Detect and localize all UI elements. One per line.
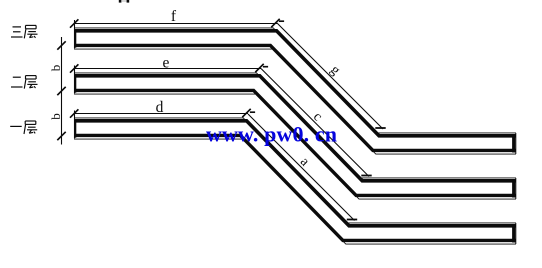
- sloped dimension line g: [277, 23, 383, 129]
- sloped dimension line c: [261, 69, 369, 177]
- cropped text fragment at top edge: [119, 0, 122, 3]
- flight 3 left end cap: [74, 119, 76, 137]
- sloped dimension line a: [248, 114, 355, 221]
- flight 3 top rebar (thick): [74, 121, 516, 226]
- tick right end of f: [271, 19, 279, 27]
- flight 2 bottom rebar (thick): [74, 90, 516, 195]
- flight 2 top rebar (thick): [74, 76, 516, 181]
- extension line flight 1: [74, 20, 76, 48]
- dimension line f: [74, 23, 278, 25]
- extension line flight 3: [74, 111, 76, 139]
- extension line flight 2: [74, 66, 76, 94]
- dimension line d: [74, 113, 249, 115]
- svg-text:e: e: [163, 54, 170, 71]
- flight 1 top rebar (thick): [74, 31, 516, 136]
- tick lower end of c: [361, 175, 371, 177]
- tick lower end of g: [375, 127, 385, 129]
- label 二层 (second floor): [11, 76, 38, 89]
- flight 3 slab outline top (thin): [74, 118, 516, 223]
- tick left end of f: [70, 19, 78, 27]
- label 三层 (third floor): [11, 25, 38, 38]
- flight 2 slab band white body: [74, 73, 516, 198]
- svg-text:d: d: [156, 99, 164, 116]
- tick right end of e: [255, 64, 263, 72]
- tick at second floor level: [57, 87, 65, 95]
- tick at first floor level: [57, 41, 65, 49]
- tick left end of d: [70, 109, 78, 117]
- vertical dimension line for floor heights: [61, 37, 63, 145]
- tick upper end of c: [263, 66, 268, 68]
- flight 3 slab outline bottom (thin): [74, 139, 516, 244]
- tick at third floor level: [57, 132, 65, 140]
- tick upper end of g: [279, 20, 284, 22]
- tick left end of e: [70, 64, 78, 72]
- flight 1 slab outline bottom (thin): [74, 49, 516, 154]
- svg-text:b: b: [48, 65, 63, 72]
- tick upper end of a: [250, 111, 255, 113]
- flight 2 slab outline bottom (thin): [74, 94, 516, 199]
- flight 2 left end cap: [74, 74, 76, 92]
- flight 1 slab outline top (thin): [74, 28, 516, 133]
- flight 1 bottom rebar (thick): [74, 45, 516, 150]
- dimension line e: [74, 68, 262, 70]
- flight 1 slab band white body: [74, 28, 516, 153]
- label 一层 (first floor): [10, 121, 37, 134]
- flight 3 right end cap (thick + thin outline): [512, 225, 515, 243]
- tick lower end of a: [347, 219, 357, 221]
- flight 1 right end cap (thick + thin outline): [512, 135, 515, 153]
- svg-text:f: f: [171, 8, 177, 25]
- flight 1 left end cap: [74, 29, 76, 47]
- flight 3 bottom rebar (thick): [74, 135, 516, 240]
- svg-text:www. pw0. cn: www. pw0. cn: [206, 122, 337, 147]
- flight 2 slab outline top (thin): [74, 73, 516, 178]
- tick right end of d: [242, 109, 250, 117]
- flight 2 right end cap (thick + thin outline): [512, 180, 515, 198]
- flight 3 slab band white body: [74, 118, 516, 243]
- svg-text:b: b: [48, 113, 63, 120]
